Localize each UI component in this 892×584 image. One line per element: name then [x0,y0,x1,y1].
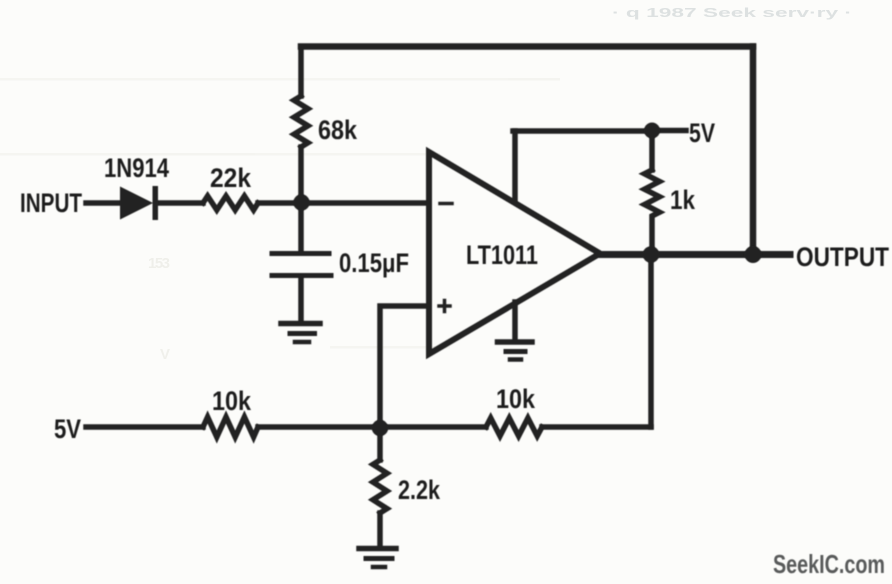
svg-text:68k: 68k [318,115,358,145]
svg-text:5V: 5V [54,414,81,444]
svg-text:2.2k: 2.2k [398,475,441,505]
svg-text:153: 153 [148,255,170,272]
svg-text:LT1011: LT1011 [466,240,538,270]
svg-text:1N914: 1N914 [104,153,169,183]
svg-text:10k: 10k [496,384,536,414]
svg-text:SeekIC.com: SeekIC.com [773,549,885,579]
svg-text:1k: 1k [670,185,696,215]
svg-text:5V: 5V [689,118,715,148]
svg-text:22k: 22k [210,163,252,193]
svg-text:OUTPUT: OUTPUT [796,242,889,272]
svg-text:· q 1987 Seek serv·ry ·: · q 1987 Seek serv·ry · [612,5,852,20]
svg-text:INPUT: INPUT [20,188,82,218]
svg-text:0.15μF: 0.15μF [339,248,409,278]
svg-text:10k: 10k [212,386,252,416]
svg-text:V: V [160,346,170,363]
